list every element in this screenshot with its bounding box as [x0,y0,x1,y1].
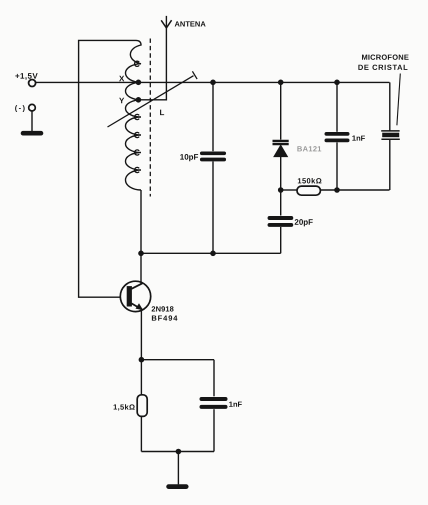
wire base loop left vertical [79,40,136,297]
node BA121 top [278,80,284,86]
node X tap [136,80,142,86]
node 1nF top [334,80,340,86]
svg-text:1nF: 1nF [352,134,366,143]
transistor Q1 2N918/BF494 [120,253,178,359]
svg-text:BF494: BF494 [151,314,178,323]
node 10pF top [210,80,216,86]
inductor L [119,40,164,190]
resistor R 150k [283,176,390,195]
capacitor C 1nF bottom [202,360,243,452]
wire emitter RC bottom [141,451,214,453]
ground [169,484,187,489]
svg-text:BA121: BA121 [297,144,322,153]
wire emitter RC top [141,359,214,361]
wire coil bottom to collector node [140,190,142,253]
node BA121 / 150k junction [278,187,284,193]
crystal microphone [358,53,409,190]
capacitor C 20pF [270,190,314,253]
wire bottom rail [141,252,281,254]
svg-text:+1,5V: +1,5V [15,72,38,81]
svg-text:Y: Y [119,96,125,105]
svg-text:10pF: 10pF [180,153,199,162]
svg-text:L: L [159,108,164,117]
node 10pF bottom junction [210,251,216,257]
svg-text:2N918: 2N918 [151,304,174,313]
diode BA121 varicap [273,82,322,190]
ground (-) [23,131,41,136]
node emitter junction [139,357,145,363]
wire Y tap to antenna [138,16,166,100]
svg-text:X: X [119,74,125,83]
dashed core line [149,39,151,197]
capacitor C 1nF top [326,82,365,190]
node (-) terminal [15,104,36,113]
svg-text:1,5kΩ: 1,5kΩ [113,403,135,412]
resistor R 1,5k [113,360,147,452]
svg-text:150kΩ: 150kΩ [297,176,322,185]
svg-text:1nF: 1nF [229,400,243,409]
node +1,5V terminal [15,72,38,87]
antenna [161,19,206,28]
svg-text:DE CRISTAL: DE CRISTAL [358,63,408,72]
trimmer adjust arrow [108,71,198,127]
node Y tap [136,97,142,103]
node collector junction [138,251,144,257]
svg-text:ANTENA: ANTENA [174,19,206,28]
wire to ground [177,452,179,485]
capacitor C 10pF [180,82,224,253]
wire (-) to ground [31,111,33,132]
svg-text:20pF: 20pF [294,218,313,227]
node ground junction [176,449,182,455]
svg-text:MICROFONE: MICROFONE [361,53,409,62]
wire top rail [36,81,390,83]
svg-text:(-): (-) [15,104,27,113]
node 150k / 1nF junction [334,187,340,193]
